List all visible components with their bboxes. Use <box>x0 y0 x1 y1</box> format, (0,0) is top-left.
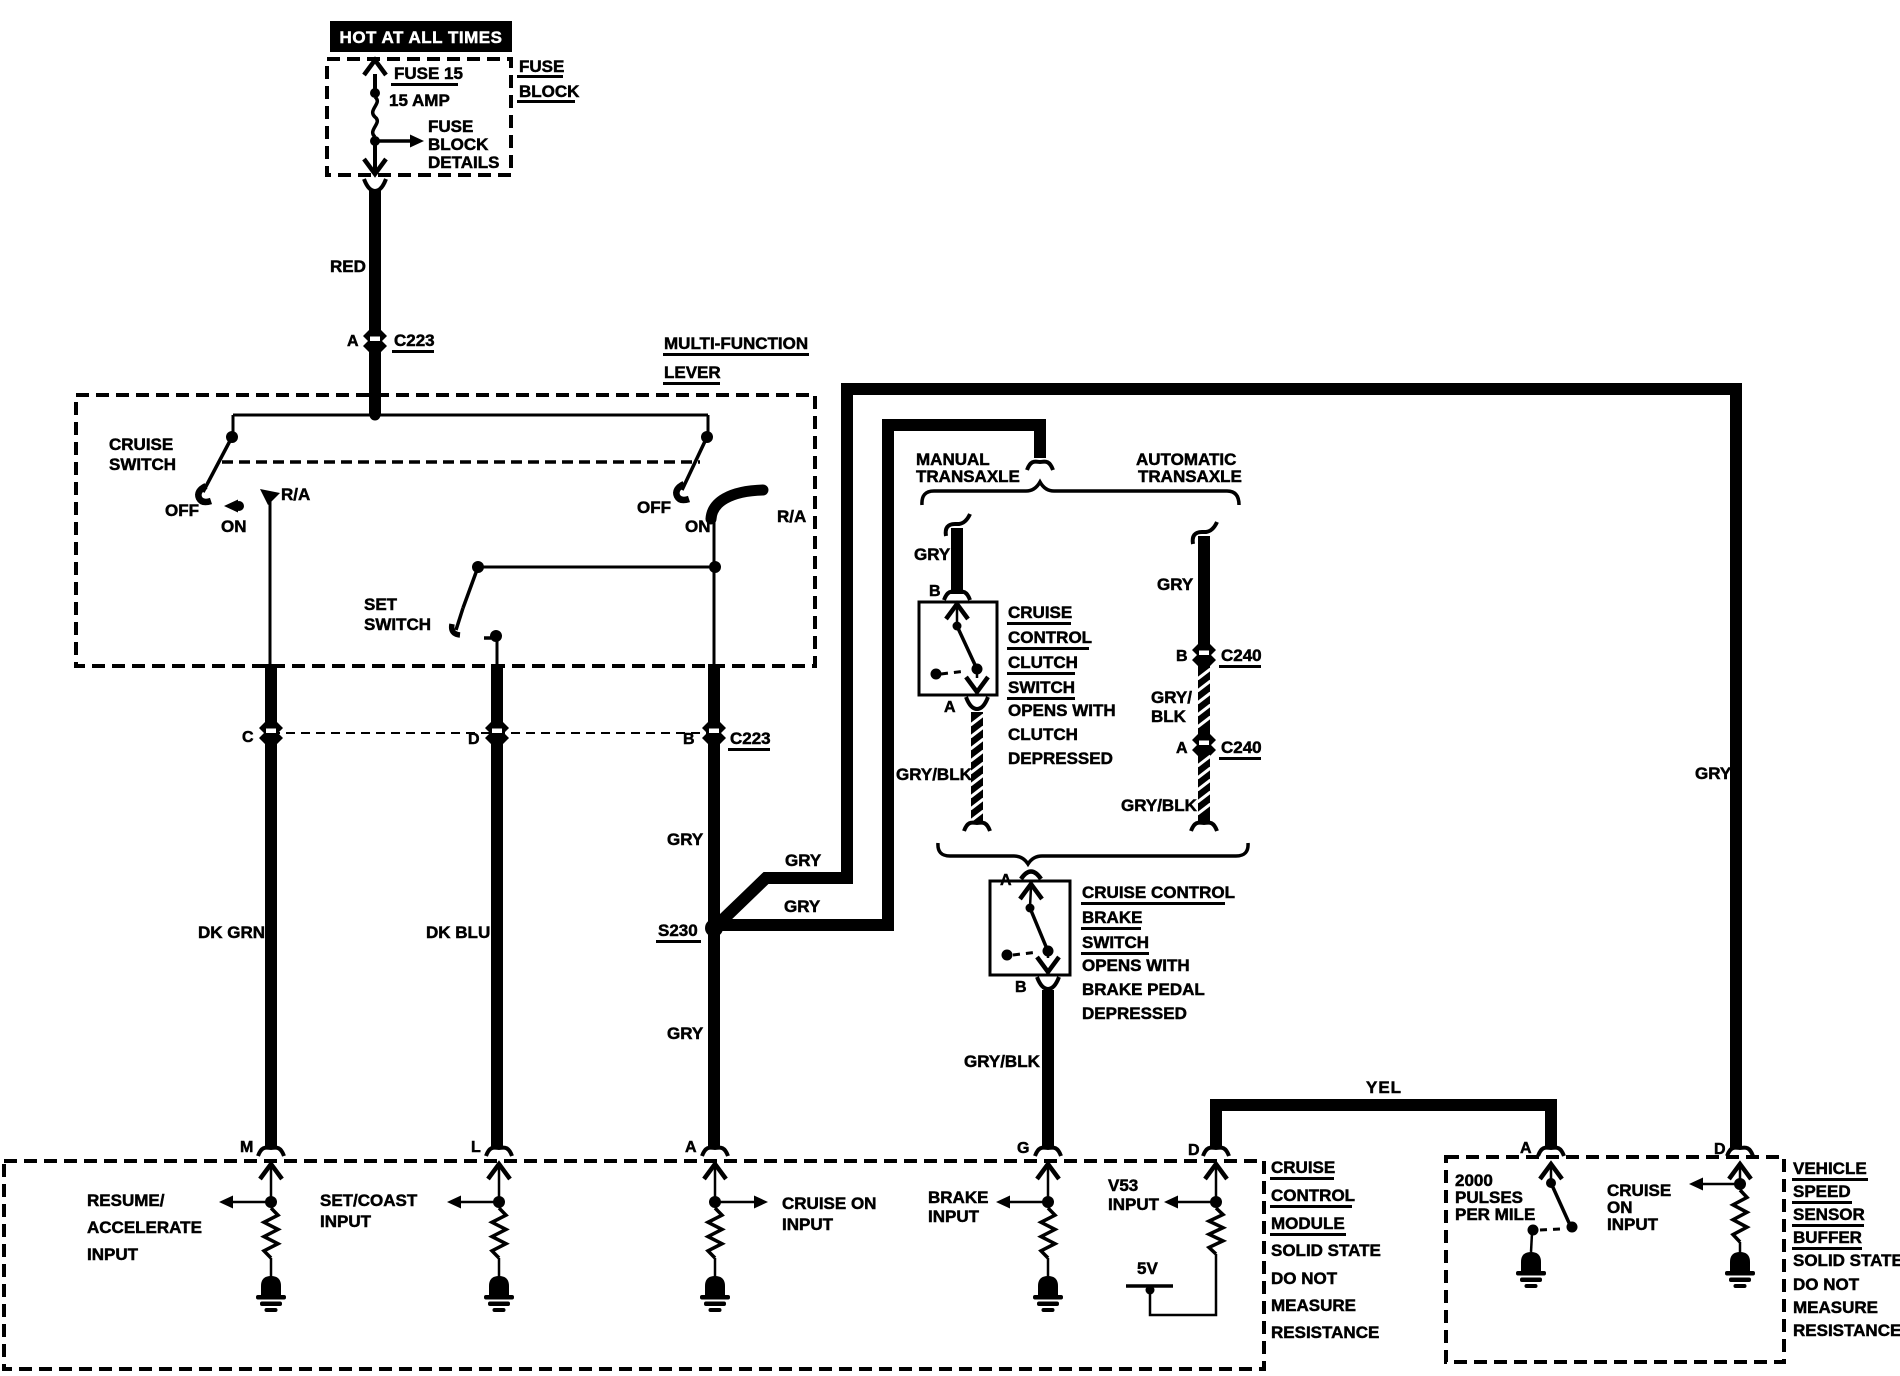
svg-text:RESISTANCE: RESISTANCE <box>1271 1323 1379 1342</box>
svg-text:OFF: OFF <box>165 501 199 520</box>
cruise switch right wiper arm <box>682 437 707 490</box>
node feed junction <box>370 410 381 421</box>
brake switch wire to pivot <box>1030 887 1031 907</box>
svg-text:GRY: GRY <box>914 545 951 564</box>
svg-text:SWITCH: SWITCH <box>1008 678 1075 697</box>
connector flare automatic wire end <box>1191 823 1217 831</box>
brace transaxle merge <box>938 843 1248 864</box>
svg-text:SPEED: SPEED <box>1793 1182 1851 1201</box>
svg-text:L: L <box>471 1139 481 1156</box>
svg-text:G: G <box>1017 1140 1029 1157</box>
svg-text:GRY: GRY <box>667 1024 704 1043</box>
cruise control clutch switch box <box>919 602 997 695</box>
svg-text:DO NOT: DO NOT <box>1793 1275 1860 1294</box>
node brake switch pivot <box>1026 904 1035 913</box>
wire contact to ground <box>1531 1233 1532 1252</box>
svg-text:YEL: YEL <box>1366 1078 1402 1097</box>
resistor module D <box>1209 1208 1223 1254</box>
power feed label box HOT AT ALL TIMES <box>330 21 512 52</box>
svg-text:CRUISE CONTROL: CRUISE CONTROL <box>1082 883 1235 902</box>
node clutch switch contact <box>972 664 983 675</box>
connector C223 pin C <box>259 722 283 744</box>
wire to ground A <box>714 1258 717 1278</box>
node speed sensor contact <box>1567 1222 1578 1233</box>
svg-text:SOLID STATE: SOLID STATE <box>1793 1251 1900 1270</box>
clutch switch wire to pivot <box>956 607 959 625</box>
svg-text:DEPRESSED: DEPRESSED <box>1008 749 1113 768</box>
svg-text:A: A <box>347 333 359 350</box>
svg-text:MODULE: MODULE <box>1271 1214 1345 1233</box>
svg-text:C240: C240 <box>1221 646 1262 665</box>
connector cup below fuse block <box>364 179 386 191</box>
wire RED C223 to lever box <box>369 350 381 415</box>
svg-text:FUSE: FUSE <box>519 57 564 76</box>
svg-text:HOT AT ALL TIMES: HOT AT ALL TIMES <box>340 28 503 47</box>
svg-text:TRANSAXLE: TRANSAXLE <box>916 467 1020 486</box>
svg-text:D: D <box>1188 1142 1200 1159</box>
svg-text:SWITCH: SWITCH <box>1082 933 1149 952</box>
connector C240 pin A <box>1192 734 1216 756</box>
module pin G <box>1035 1148 1061 1156</box>
vehicle speed sensor buffer dashed box <box>1446 1157 1784 1362</box>
wire GRY manual branch <box>946 514 970 536</box>
svg-text:R/A: R/A <box>777 507 806 526</box>
svg-text:CRUISE ON: CRUISE ON <box>782 1194 876 1213</box>
svg-text:A: A <box>1176 740 1188 757</box>
fuse block details pointer arrow <box>375 139 412 143</box>
node set switch pivot <box>472 561 484 573</box>
node set junction <box>709 561 721 573</box>
svg-text:R/A: R/A <box>281 485 310 504</box>
ground module G <box>1038 1276 1058 1295</box>
svg-text:CONTROL: CONTROL <box>1008 628 1092 647</box>
svg-text:GRY/: GRY/ <box>1151 688 1192 707</box>
node speed sensor left contact <box>1528 1225 1539 1236</box>
svg-text:LEVER: LEVER <box>664 363 721 382</box>
cruise on output arrow <box>1703 1183 1740 1186</box>
svg-text:D: D <box>468 731 480 748</box>
wire GRY/BLK clutch to brace <box>971 712 983 822</box>
svg-text:B: B <box>929 583 941 600</box>
wire DK BLU D to module <box>491 740 503 1148</box>
svg-text:INPUT: INPUT <box>320 1212 372 1231</box>
svg-text:INPUT: INPUT <box>928 1207 980 1226</box>
module pin L <box>486 1148 512 1156</box>
internal linkage dashed line <box>222 460 700 464</box>
node fuse bottom <box>370 136 380 146</box>
ground speed sensor switch <box>1521 1252 1541 1271</box>
svg-text:CONTROL: CONTROL <box>1271 1186 1355 1205</box>
cruise on input arrow <box>715 1201 755 1204</box>
wire set contact to D <box>496 640 499 665</box>
resistor speed sensor D <box>1733 1190 1747 1242</box>
svg-text:B: B <box>683 731 695 748</box>
multi-function lever dashed box <box>76 395 815 666</box>
wire V53 to 5V supply <box>1150 1254 1216 1315</box>
svg-text:B: B <box>1176 648 1188 665</box>
brake switch output arrow <box>1047 954 1050 958</box>
wire C lever to C223 <box>265 664 277 733</box>
wire lever to set junction <box>713 512 716 567</box>
svg-text:CRUISE: CRUISE <box>1008 603 1072 622</box>
svg-text:OPENS WITH: OPENS WITH <box>1008 701 1116 720</box>
speed sensor pin A <box>1538 1148 1564 1156</box>
svg-text:GRY: GRY <box>784 897 821 916</box>
speed sensor switch arm <box>1551 1183 1570 1225</box>
svg-text:BUFFER: BUFFER <box>1793 1228 1862 1247</box>
wire right switch drop <box>707 415 710 437</box>
svg-text:OPENS WITH: OPENS WITH <box>1082 956 1190 975</box>
svg-text:ON: ON <box>221 517 247 536</box>
svg-text:INPUT: INPUT <box>782 1215 834 1234</box>
svg-text:DO NOT: DO NOT <box>1271 1269 1338 1288</box>
svg-text:B: B <box>1015 979 1027 996</box>
svg-text:MULTI-FUNCTION: MULTI-FUNCTION <box>664 334 808 353</box>
svg-text:OFF: OFF <box>637 498 671 517</box>
svg-text:C223: C223 <box>730 729 771 748</box>
svg-text:GRY: GRY <box>1695 764 1732 783</box>
svg-text:DETAILS: DETAILS <box>428 153 499 172</box>
svg-text:S230: S230 <box>658 921 698 940</box>
svg-text:BLK: BLK <box>1151 707 1187 726</box>
wire set switch link <box>478 566 716 569</box>
wire RED fuse to C223 <box>369 190 381 332</box>
connector flare clutch wire end <box>964 823 990 831</box>
svg-text:BRAKE PEDAL: BRAKE PEDAL <box>1082 980 1205 999</box>
connector C223 pin A <box>363 330 387 352</box>
clutch switch wiper arm <box>957 626 976 667</box>
svg-text:DEPRESSED: DEPRESSED <box>1082 1004 1187 1023</box>
svg-text:SENSOR: SENSOR <box>1793 1205 1865 1224</box>
clutch switch dashed link <box>941 671 966 674</box>
svg-text:CRUISE: CRUISE <box>109 435 173 454</box>
5V supply bar <box>1126 1284 1173 1288</box>
connector cup clutch switch A <box>966 697 988 709</box>
svg-text:C: C <box>242 729 254 746</box>
resistor module G <box>1041 1208 1055 1258</box>
svg-text:SOLID STATE: SOLID STATE <box>1271 1241 1381 1260</box>
svg-text:BRAKE: BRAKE <box>1082 908 1142 927</box>
svg-text:C240: C240 <box>1221 738 1262 757</box>
contact ON left <box>234 501 244 511</box>
svg-text:VEHICLE: VEHICLE <box>1793 1159 1867 1178</box>
svg-text:CLUTCH: CLUTCH <box>1008 653 1078 672</box>
node left switch pivot <box>226 431 238 443</box>
brake switch internal contact arrow <box>1020 884 1042 899</box>
svg-text:GRY/BLK: GRY/BLK <box>1121 796 1198 815</box>
svg-text:MEASURE: MEASURE <box>1793 1298 1878 1317</box>
wire left switch drop <box>232 415 235 437</box>
svg-text:GRY: GRY <box>785 851 822 870</box>
cruise switch left wiper arm <box>203 437 232 492</box>
module pin A <box>702 1148 728 1156</box>
svg-text:PER MILE: PER MILE <box>1455 1205 1535 1224</box>
wire DK GRN C to module <box>265 740 277 1148</box>
wire left R/A to C <box>269 500 272 665</box>
cruise switch right lever R/A <box>711 490 763 519</box>
svg-text:GRY/BLK: GRY/BLK <box>896 765 973 784</box>
ground module A <box>705 1276 725 1295</box>
svg-text:INPUT: INPUT <box>87 1245 139 1264</box>
wire GRY automatic branch <box>1193 522 1217 544</box>
svg-text:M: M <box>240 1139 253 1156</box>
wire to ground M <box>270 1258 273 1278</box>
node clutch switch left contact <box>931 669 942 680</box>
svg-text:DK GRN: DK GRN <box>198 923 265 942</box>
svg-text:A: A <box>685 1139 697 1156</box>
svg-text:RESISTANCE: RESISTANCE <box>1793 1321 1900 1340</box>
svg-text:DK BLU: DK BLU <box>426 923 490 942</box>
svg-text:BLOCK: BLOCK <box>428 135 489 154</box>
resume input arrow <box>233 1201 271 1204</box>
splice S230 <box>705 919 723 937</box>
svg-text:GRY: GRY <box>1157 575 1194 594</box>
wire GRY branch to transaxle switches <box>714 425 1040 925</box>
connector row dashed line <box>271 732 714 734</box>
svg-text:INPUT: INPUT <box>1108 1195 1160 1214</box>
wire GRY branch to speed sensor <box>710 389 1736 1148</box>
set switch wiper arm <box>463 567 478 608</box>
connector cup brake switch B <box>1037 977 1059 989</box>
brake switch wiper arm <box>1030 908 1047 949</box>
wire GRY B to module <box>708 928 720 1148</box>
connector C223 pin D <box>485 722 509 744</box>
svg-text:SET: SET <box>364 595 398 614</box>
contact set switch <box>490 630 502 642</box>
v53 input arrow <box>1178 1201 1216 1204</box>
svg-text:15 AMP: 15 AMP <box>389 91 450 110</box>
svg-text:TRANSAXLE: TRANSAXLE <box>1138 467 1242 486</box>
connector arc brake switch feed <box>1021 872 1041 880</box>
brake input arrow <box>1010 1201 1048 1204</box>
svg-text:SWITCH: SWITCH <box>364 615 431 634</box>
wire to ground L <box>498 1258 501 1278</box>
module pin D <box>1203 1148 1229 1156</box>
clutch switch output arrow <box>976 672 979 678</box>
resistor module L <box>492 1208 506 1258</box>
speed sensor dashed link <box>1540 1229 1560 1230</box>
svg-text:RESUME/: RESUME/ <box>87 1191 165 1210</box>
connector cup transaxle feed <box>1027 462 1053 470</box>
wire GRY B to S230 <box>708 740 720 928</box>
resistor module M <box>264 1208 278 1258</box>
svg-text:FUSE 15: FUSE 15 <box>394 64 463 83</box>
node clutch switch pivot <box>953 622 962 631</box>
svg-text:SET/COAST: SET/COAST <box>320 1191 418 1210</box>
connector C223 pin B <box>702 722 726 744</box>
svg-text:MEASURE: MEASURE <box>1271 1296 1356 1315</box>
svg-text:CRUISE: CRUISE <box>1271 1158 1335 1177</box>
svg-text:5V: 5V <box>1137 1259 1158 1278</box>
fuse block dashed box <box>327 59 511 175</box>
svg-text:GRY: GRY <box>667 830 704 849</box>
node fuse top <box>370 88 380 98</box>
clutch switch internal contact arrow <box>946 604 968 619</box>
wire cruise switch bus <box>233 414 708 417</box>
svg-text:A: A <box>944 699 956 716</box>
node brake switch left contact <box>1002 950 1013 961</box>
wire YEL module D to speed sensor A <box>1216 1105 1551 1148</box>
svg-text:INPUT: INPUT <box>1607 1215 1659 1234</box>
svg-text:C223: C223 <box>394 331 435 350</box>
speed sensor pin D <box>1727 1148 1753 1156</box>
svg-text:RED: RED <box>330 257 366 276</box>
connector clutch switch B <box>944 592 970 600</box>
wire fuse output with down arrow <box>373 143 377 170</box>
svg-text:A: A <box>1520 1140 1532 1157</box>
svg-text:SWITCH: SWITCH <box>109 455 176 474</box>
node brake switch contact <box>1043 946 1054 957</box>
ground module M <box>261 1276 281 1295</box>
svg-text:ACCELERATE: ACCELERATE <box>87 1218 202 1237</box>
set coast input arrow <box>461 1201 499 1204</box>
resistor module A <box>708 1208 722 1258</box>
svg-text:BRAKE: BRAKE <box>928 1188 988 1207</box>
wire to ground G <box>1047 1258 1050 1278</box>
wire B lever to C223 <box>708 664 720 733</box>
svg-text:D: D <box>1714 1141 1726 1158</box>
module pin M <box>258 1148 284 1156</box>
ground module L <box>489 1276 509 1295</box>
wire D lever to C223 <box>491 664 503 733</box>
brake switch dashed link <box>1013 952 1038 955</box>
svg-text:V53: V53 <box>1108 1176 1138 1195</box>
ground speed sensor D <box>1730 1252 1750 1271</box>
wire GRY/BLK brake switch to module <box>1042 990 1054 1148</box>
wire fuse feed with up arrow <box>373 74 377 93</box>
wire to ground speed sensor D <box>1739 1242 1742 1254</box>
cruise control brake switch box <box>990 881 1070 975</box>
node right switch pivot <box>701 431 713 443</box>
cruise control module dashed box <box>4 1161 1264 1369</box>
wire GRY/BLK C240 segment <box>1198 666 1210 737</box>
brace transaxle options <box>922 482 1239 505</box>
svg-text:CLUTCH: CLUTCH <box>1008 725 1078 744</box>
svg-text:BLOCK: BLOCK <box>519 82 580 101</box>
fuse F15 element <box>373 97 378 137</box>
wire B inside box <box>713 567 716 665</box>
connector C240 pin B <box>1192 644 1216 666</box>
svg-text:GRY/BLK: GRY/BLK <box>964 1052 1041 1071</box>
contact R/A left arrowhead <box>260 489 280 505</box>
svg-text:FUSE: FUSE <box>428 117 473 136</box>
wire GRY/BLK automatic to brace <box>1198 753 1210 822</box>
